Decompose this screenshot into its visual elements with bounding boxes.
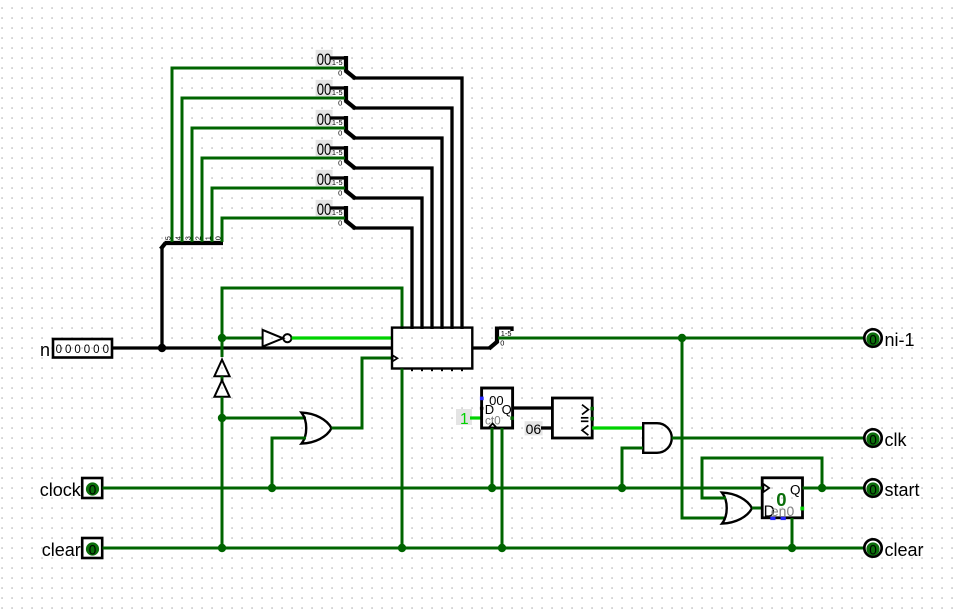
block U1 bottom pin stub 6 xyxy=(461,369,463,372)
block U1 bottom pin stub 1 xyxy=(411,369,413,372)
svg-text:0: 0 xyxy=(500,339,504,348)
wire comparator less-than output to AND gate (logic 1) xyxy=(592,426,643,429)
constant C6 value 00 xyxy=(316,200,333,219)
junction node N3 (OR1 input tap) xyxy=(218,414,226,422)
block U1 (subcircuit, 6-to-1 data path) xyxy=(392,328,472,369)
wire constant C3 to splitter S3 xyxy=(330,116,345,119)
constant C2 value 00 xyxy=(316,80,333,99)
wire stub splitter S8 bits 1-5 (unconnected) xyxy=(499,328,512,331)
wire OR2 output to flip-flop en0 D input xyxy=(752,507,762,510)
wire NOT output to block U1 (logic 1) xyxy=(292,336,392,339)
svg-text:1-5: 1-5 xyxy=(332,118,343,127)
svg-text:clear: clear xyxy=(42,540,81,560)
wire constant C2 to splitter S2 xyxy=(330,86,345,89)
svg-text:0: 0 xyxy=(89,542,97,557)
svg-text:1-5: 1-5 xyxy=(332,148,343,157)
input pin n (6-bit) xyxy=(40,339,112,360)
output pin clk xyxy=(864,429,907,450)
AND gate U8 xyxy=(643,423,672,453)
wire splitter S7 combined end to node N1 xyxy=(160,247,163,349)
splitter S7 branch label bit 2 xyxy=(193,236,202,240)
wire node N2 to NOT gate input xyxy=(222,337,263,340)
svg-text:ni-1: ni-1 xyxy=(885,330,915,350)
junction node N12 (clear net tap) xyxy=(788,544,796,552)
splitter S3 (bits 1-5 / 0) xyxy=(332,116,356,139)
wire bit2 from splitter S7 up to splitter S4 xyxy=(202,158,345,242)
splitter S1 (bits 1-5 / 0) xyxy=(332,56,356,79)
junction node N11 on Q wire xyxy=(818,484,826,492)
svg-text:Q: Q xyxy=(790,483,801,498)
svg-text:start: start xyxy=(885,480,920,500)
svg-text:0: 0 xyxy=(869,432,877,447)
svg-text:00: 00 xyxy=(317,110,332,129)
constant C4 value 00 xyxy=(316,140,333,159)
wire flip-flop en0 Q to output pin start xyxy=(803,487,865,490)
svg-text:00: 00 xyxy=(317,200,332,219)
wire bit3 from splitter S7 up to splitter S3 xyxy=(192,128,345,242)
wire bus from splitter S5 to block input 5 xyxy=(353,198,423,329)
junction node N10 (clock net tap) xyxy=(618,484,626,492)
D flip-flop U10 label en0 xyxy=(762,478,804,521)
splitter S4 (bits 1-5 / 0) xyxy=(332,146,356,169)
NOT gate U2 xyxy=(263,330,292,347)
block U1 bottom pin stub 5 xyxy=(451,369,453,372)
junction node N2 (NOT input tap) xyxy=(218,334,226,342)
svg-text:1: 1 xyxy=(460,411,469,428)
svg-text:06: 06 xyxy=(526,421,542,437)
wire bus block U1 output to splitter S8 xyxy=(472,346,491,349)
constant C8 value 06 xyxy=(525,421,543,437)
splitter S7 branch label bit 3 xyxy=(183,236,192,240)
wire constant C5 to splitter S5 xyxy=(330,176,345,179)
junction node N7 (ni-1 tap to OR2) xyxy=(678,334,686,342)
junction node N8 (clock net tap) xyxy=(488,484,496,492)
svg-text:0: 0 xyxy=(869,332,877,347)
wire constant C6 to splitter S6 xyxy=(330,206,345,209)
svg-text:n: n xyxy=(40,340,50,360)
block U1 bottom pin stub 4 xyxy=(441,369,443,372)
constant C3 value 00 xyxy=(316,110,333,129)
svg-text:00: 00 xyxy=(317,170,332,189)
wire bus n to block U1 xyxy=(113,346,392,349)
splitter S7 branch label bit 0 xyxy=(213,236,222,240)
junction node N4 (clear net tap) xyxy=(218,544,226,552)
svg-text:clk: clk xyxy=(885,430,908,450)
input pin clock xyxy=(40,478,102,500)
block U1 bottom pin stub 2 xyxy=(421,369,423,372)
wire bit5 from splitter S7 up to splitter S1 xyxy=(172,68,345,242)
OR gate U5 xyxy=(302,413,332,444)
wire bus register ct0 Q to comparator A xyxy=(513,406,554,409)
register U6 label ct0 (counter) xyxy=(480,388,514,428)
junction node N5 (clock net tap) xyxy=(268,484,276,492)
output pin clear xyxy=(864,539,923,560)
wire node N7 down to OR2 input B xyxy=(682,338,726,518)
splitter S7 fanout 6 (bits 5..0 of n) xyxy=(161,243,223,249)
splitter S2 (bits 1-5 / 0) xyxy=(332,86,356,109)
svg-text:0: 0 xyxy=(338,98,342,107)
svg-text:Q: Q xyxy=(502,402,512,417)
output pin ni-1 xyxy=(864,329,914,350)
constant C1 value 00 xyxy=(316,50,333,69)
wire bus from splitter S4 to block input 4 xyxy=(353,168,433,329)
wire bus from splitter S6 to block input 6 xyxy=(353,228,413,329)
svg-text:00: 00 xyxy=(317,140,332,159)
svg-text:0: 0 xyxy=(869,482,877,497)
svg-text:clock: clock xyxy=(40,480,82,500)
svg-text:1-5: 1-5 xyxy=(332,58,343,67)
wire constant C7 to register ct0 D input (logic 1) xyxy=(470,416,482,419)
svg-text:00: 00 xyxy=(317,50,332,69)
svg-text:ct0: ct0 xyxy=(485,414,501,428)
wire select loop from buffer out to block top select pin xyxy=(222,288,402,357)
wire bit1 from splitter S7 up to splitter S5 xyxy=(212,188,345,242)
svg-text:0: 0 xyxy=(338,158,342,167)
wire block U1 bottom select pin down to clear net xyxy=(401,369,404,549)
wire buffer U4 out to buffer U3 in xyxy=(221,376,224,381)
OR gate U9 xyxy=(722,493,752,524)
wire bit0 from splitter S7 up to splitter S6 xyxy=(222,218,345,242)
svg-text:1-5: 1-5 xyxy=(332,208,343,217)
wire bus from splitter S1 to block input 1 xyxy=(353,78,463,329)
svg-text:1-5: 1-5 xyxy=(332,88,343,97)
svg-text:0: 0 xyxy=(338,68,342,77)
splitter S7 branch label bit 1 xyxy=(203,236,212,240)
wire clear net xyxy=(103,547,865,550)
svg-text:0: 0 xyxy=(89,482,97,497)
wire flip-flop en0 reset down to clear net xyxy=(791,518,794,548)
splitter S6 (bits 1-5 / 0) xyxy=(332,206,356,229)
constant C5 value 00 xyxy=(316,170,333,189)
wire ni-1 net from splitter S8 bit0 to output pin xyxy=(498,337,864,340)
buffer U3 (north) xyxy=(214,360,229,377)
wire register ct0 reset down to clear net xyxy=(501,428,504,548)
wire bit4 from splitter S7 up to splitter S2 xyxy=(182,98,345,242)
svg-text:1-5: 1-5 xyxy=(332,178,343,187)
splitter S7 branch label bit 4 xyxy=(173,236,182,240)
output pin start xyxy=(864,479,919,500)
wire constant C1 to splitter S1 xyxy=(330,56,345,59)
wire constant C4 to splitter S4 xyxy=(330,146,345,149)
constant C7 value 1 xyxy=(456,409,472,428)
buffer U4 (north) xyxy=(214,380,229,397)
svg-text:0: 0 xyxy=(338,218,342,227)
wire OR1 input B from clock net xyxy=(272,438,306,488)
svg-text:clear: clear xyxy=(885,540,924,560)
junction node N1 on n bus xyxy=(158,344,166,352)
junction node N6 (clear net tap) xyxy=(398,544,406,552)
wire bus from splitter S3 to block input 3 xyxy=(353,138,443,329)
svg-text:0: 0 xyxy=(338,128,342,137)
block U1 bottom pin stub 3 xyxy=(431,369,433,372)
wire constant C8 to comparator B xyxy=(541,426,553,429)
svg-text:00: 00 xyxy=(317,80,332,99)
wire bus from splitter S2 to block input 2 xyxy=(353,108,453,329)
wire clk net from AND output to output pin clk xyxy=(672,437,864,440)
wire clock net xyxy=(103,487,763,490)
svg-text:000000: 000000 xyxy=(56,344,112,356)
splitter S5 (bits 1-5 / 0) xyxy=(332,176,356,199)
junction node N9 (clear net tap) xyxy=(498,544,506,552)
splitter S8 (bit 0 / bits 1-5) xyxy=(489,327,511,349)
wire Q feedback loop from node N11 to OR2 input A xyxy=(702,458,822,498)
wire AND input B from clock net xyxy=(622,448,643,488)
svg-text:0: 0 xyxy=(338,188,342,197)
input pin clear xyxy=(42,538,102,560)
comparator U7 xyxy=(552,398,594,438)
svg-text:0: 0 xyxy=(869,542,877,557)
wire buffer U4 input down to clear net xyxy=(221,397,224,548)
splitter S7 branch label bit 5 xyxy=(163,236,172,240)
wire node N3 to OR1 input A xyxy=(222,417,306,420)
wire OR1 output to block U1 clock pin xyxy=(332,358,393,428)
wire register ct0 clock down to clock net xyxy=(491,428,494,488)
